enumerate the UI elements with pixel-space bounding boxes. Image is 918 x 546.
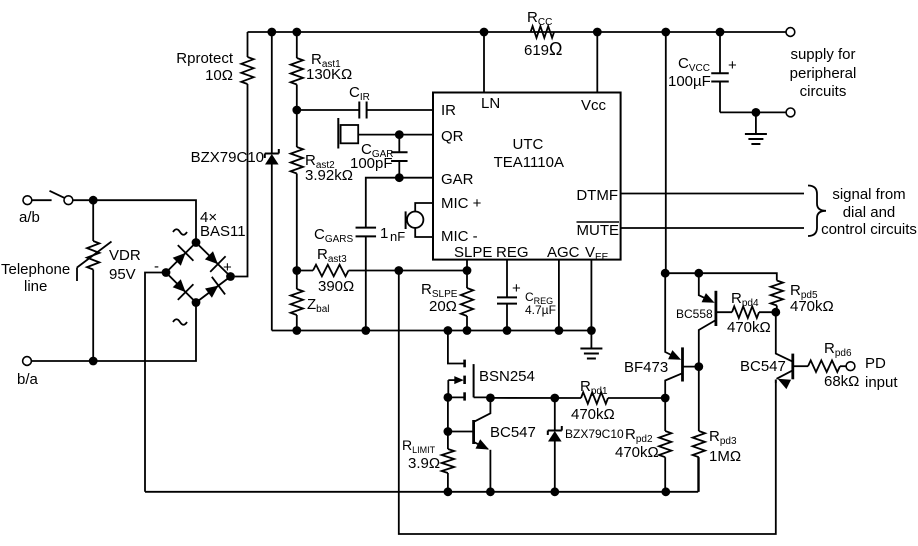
resistor Rpd3 1M: [698, 367, 700, 431]
node: SLPE feedback junction: [394, 266, 403, 275]
capacitor CGARS 1nF: [356, 227, 377, 229]
terminal PD input: [846, 362, 855, 371]
node: VDR top junction: [89, 196, 98, 205]
wire: SLPE row right: [349, 270, 468, 272]
node: CGARS bottom: [361, 326, 370, 335]
node: BF473 emitter top: [661, 269, 670, 278]
wire: IR line left: [297, 109, 360, 111]
node: bridge left vertex (-): [162, 268, 171, 277]
wire: REG pin down: [506, 260, 508, 298]
zener diode BZX79C10 (line): [265, 153, 279, 155]
svg-text:AGC: AGC: [547, 244, 580, 261]
svg-text:Vcc: Vcc: [581, 97, 607, 114]
svg-text:VDR: VDR: [109, 247, 141, 264]
svg-text:619Ω: 619Ω: [524, 39, 563, 59]
node: zener2 bottom: [550, 487, 559, 496]
transistor Q5 BC547 emitter: [777, 370, 793, 379]
wire: bridge plus up to Rprotect: [235, 84, 248, 277]
node: BC547 base junction: [444, 427, 453, 436]
microphone MIC symbol: [405, 211, 407, 229]
transistor Q4 BF473 collector: [665, 373, 682, 398]
transistor Q5 BC547 collector: [776, 312, 793, 362]
wire: MUTE line: [621, 227, 804, 229]
transistor Q3 BC558 base: [715, 291, 718, 326]
node: VEE bottom: [587, 326, 596, 335]
svg-text:nF: nF: [390, 229, 405, 244]
transistor Q2 BC547 emitter: [474, 442, 488, 449]
node: supply ground junction: [752, 108, 761, 117]
svg-text:-: -: [154, 258, 159, 275]
diode bridge 4x BAS11 frame: [166, 243, 231, 303]
wire: QR line: [358, 134, 433, 136]
svg-text:BF473: BF473: [624, 359, 668, 376]
wire: feedback SLPE to PD emitter: [399, 271, 776, 535]
node: supply branch junction: [661, 28, 670, 37]
diode D3 (left to bottom): [173, 279, 186, 292]
hook switch S1 blade: [32, 199, 52, 201]
svg-text:130KΩ: 130KΩ: [306, 66, 352, 83]
transistor Q5 BC547 base: [791, 354, 794, 380]
node: Rpd4 Rpd5 junction: [771, 308, 780, 317]
wire: IR line right: [367, 109, 433, 111]
svg-text:a/b: a/b: [19, 209, 40, 226]
resistor Rpd6 68k: [808, 360, 840, 372]
node: VDR bottom junction: [89, 357, 98, 366]
wire: source to base: [447, 397, 449, 431]
transistor Q1 BSN254 drain: [448, 331, 465, 364]
varistor VDR: [92, 200, 94, 241]
node: BSN254 drain junction: [444, 326, 453, 335]
svg-text:+: +: [728, 57, 737, 74]
node: Vcc top: [593, 28, 602, 37]
svg-text:control circuits: control circuits: [821, 221, 917, 238]
node: CREG bottom: [503, 326, 512, 335]
node: zener2 top junction: [550, 394, 559, 403]
svg-text:470kΩ: 470kΩ: [571, 406, 615, 423]
svg-text:input: input: [865, 374, 898, 391]
resistor RCC 619: [531, 26, 555, 38]
node: LN top: [480, 28, 489, 37]
svg-text:68kΩ: 68kΩ: [824, 373, 859, 390]
svg-text:BZX79C10: BZX79C10: [565, 427, 624, 441]
brace right: [808, 186, 826, 237]
wire: LN pin up: [483, 32, 485, 93]
node: GAR junction: [395, 173, 404, 182]
node: zener top: [267, 28, 276, 37]
diode D2 (top to plus): [205, 251, 218, 264]
svg-text:b/a: b/a: [17, 371, 39, 388]
wire: b/a to bridge bottom: [31, 307, 196, 362]
wire: MIC- line: [415, 228, 433, 237]
svg-text:100pF: 100pF: [350, 155, 393, 172]
diode D1 (left to top): [173, 253, 186, 266]
svg-text:PD: PD: [865, 355, 886, 372]
wire: top supply rail: [248, 31, 786, 33]
wire: zener branch upper: [271, 32, 273, 154]
node: Rast1 top: [292, 28, 301, 37]
wire: zener branch lower: [271, 165, 273, 331]
ac symbol top: [173, 229, 187, 235]
wire: Rpd3 bottom corner: [697, 457, 699, 492]
svg-text:SLPE: SLPE: [454, 244, 492, 261]
svg-text:BC558: BC558: [676, 307, 713, 321]
resistor Rpd4 470k: [716, 311, 732, 313]
svg-text:20Ω: 20Ω: [429, 298, 457, 315]
node: BC558 emitter top: [694, 269, 703, 278]
node: RLIMIT bottom: [444, 487, 453, 496]
svg-text:+: +: [223, 259, 232, 276]
wire: a/b to bridge top: [73, 200, 196, 238]
node: RSLPE bottom: [463, 326, 472, 335]
resistor Rast3 390: [313, 265, 349, 277]
wire: Vcc pin up: [596, 32, 598, 93]
wire: SLPE pin down: [466, 260, 468, 271]
svg-text:100µF: 100µF: [668, 73, 711, 90]
svg-text:95V: 95V: [109, 266, 136, 283]
wire: DTMF line: [621, 193, 804, 195]
svg-text:1: 1: [380, 225, 388, 242]
node: CVCC top: [716, 28, 725, 37]
node: Rpd2 bottom: [661, 487, 670, 496]
wire: AGC pin down: [558, 260, 560, 331]
resistor Rpd1 470k: [581, 392, 608, 404]
svg-text:UTC: UTC: [512, 136, 543, 153]
transistor Q2 BC547 collector: [474, 398, 491, 422]
transistor Q4 BF473 emitter: [665, 273, 678, 358]
svg-text:390Ω: 390Ω: [318, 278, 354, 295]
node: bridge right vertex (+): [226, 272, 235, 281]
transistor Q1 BSN254 gate: [473, 364, 475, 397]
svg-text:REG: REG: [496, 244, 529, 261]
svg-text:4.7µF: 4.7µF: [525, 303, 556, 317]
terminal a/b (line a): [23, 196, 32, 205]
transistor Q3 BC558 emitter: [699, 273, 712, 301]
svg-text:GAR: GAR: [441, 171, 474, 188]
zener diode BZX79C10 (PD): [554, 398, 556, 431]
resistor Rpd2 470k: [664, 398, 666, 431]
svg-text:LN: LN: [481, 95, 500, 112]
ground: VEE: [590, 331, 592, 349]
node: CGAR top junction: [395, 130, 404, 139]
wire: PD rail: [666, 273, 777, 280]
resistor Rast1 130K: [296, 32, 298, 58]
svg-text:470kΩ: 470kΩ: [727, 319, 771, 336]
node: SLPE row left junction: [292, 266, 301, 275]
ac symbol bottom: [173, 319, 187, 325]
node: Zbal bottom: [292, 326, 301, 335]
wire: VEE rail: [272, 330, 592, 332]
svg-text:+: +: [512, 280, 521, 297]
terminal b/a (line b): [23, 357, 32, 366]
op-amp U1 UTC TEA1110A box: [433, 93, 621, 260]
node: IR junction: [292, 106, 301, 115]
wire: gate node to Rpd1: [490, 397, 581, 399]
capacitor CREG 4.7uF: [497, 296, 517, 298]
node: BSN254 gate junction: [486, 394, 495, 403]
wire: bridge minus to bottom rail: [145, 273, 162, 492]
receiver QR symbol: [337, 118, 339, 149]
svg-text:3.9Ω: 3.9Ω: [408, 455, 440, 472]
wire: bottom rail: [145, 491, 698, 493]
node: BF473 base junction: [694, 362, 703, 371]
svg-text:BC547: BC547: [740, 358, 786, 375]
impedance Zbal: [296, 271, 298, 290]
node: bridge top vertex: [192, 238, 201, 247]
svg-text:470kΩ: 470kΩ: [790, 298, 834, 315]
resistor Rprotect 10ohm: [241, 57, 253, 84]
terminal supply -: [786, 108, 795, 117]
node: BSN254 source junction: [444, 393, 453, 402]
resistor Rpd5 470k: [771, 281, 783, 306]
wire: VEE pin down: [590, 260, 592, 331]
svg-text:peripheral: peripheral: [790, 65, 857, 82]
wire: Rpd1 to BF473 node: [608, 397, 665, 399]
transistor Q1 BSN254 source: [448, 396, 464, 398]
transistor Q4 BF473 base: [681, 347, 684, 381]
svg-text:3.92kΩ: 3.92kΩ: [305, 167, 353, 184]
transistor Q3 BC558 collector: [699, 320, 716, 367]
transistor Q1 BSN254 channel: [463, 360, 466, 368]
svg-text:MIC -: MIC -: [441, 228, 478, 245]
svg-text:DTMF: DTMF: [576, 187, 618, 204]
svg-text:TEA1110A: TEA1110A: [494, 154, 564, 171]
svg-text:IR: IR: [441, 102, 456, 119]
node: bridge bottom vertex: [192, 298, 201, 307]
capacitor CVCC 100uF: [719, 32, 721, 73]
svg-text:QR: QR: [441, 128, 464, 145]
resistor RSLPE 20: [466, 271, 468, 289]
svg-text:Telephone: Telephone: [1, 261, 70, 278]
wire: GAR line: [366, 178, 433, 228]
wire: CVCC bottom to terminal: [720, 111, 786, 113]
svg-text:BSN254: BSN254: [479, 368, 535, 385]
transistor Q1 BSN254 bulk arrow: [448, 379, 456, 381]
svg-text:dial and: dial and: [843, 204, 896, 221]
svg-text:BZX79C10: BZX79C10: [191, 149, 264, 166]
svg-text:circuits: circuits: [800, 83, 847, 100]
diode D4 (bottom to plus): [205, 286, 218, 298]
node: AGC bottom: [555, 326, 564, 335]
svg-text:470kΩ: 470kΩ: [615, 444, 659, 461]
svg-text:BAS11: BAS11: [200, 223, 246, 240]
wire: supply to PD rail: [665, 32, 667, 273]
svg-text:Rprotect: Rprotect: [176, 50, 234, 67]
resistor Rast2 3.92k: [296, 110, 298, 147]
svg-text:supply for: supply for: [790, 46, 855, 63]
node: BC547 emitter bottom: [486, 487, 495, 496]
resistor RLIMIT 3.9: [447, 432, 449, 450]
node: Rpd1 right junction: [661, 394, 670, 403]
capacitor CGAR 100pF: [398, 135, 400, 153]
transistor Q2 BC547 base: [448, 431, 474, 433]
svg-text:MUTE: MUTE: [577, 222, 620, 239]
wire: SLPE row left: [297, 270, 313, 272]
svg-text:1MΩ: 1MΩ: [709, 448, 741, 465]
svg-text:signal from: signal from: [832, 186, 905, 203]
svg-text:10Ω: 10Ω: [205, 67, 233, 84]
svg-text:MIC +: MIC +: [441, 195, 482, 212]
node: SLPE pin junction: [463, 266, 472, 275]
terminal supply +: [786, 28, 795, 37]
svg-text:BC547: BC547: [490, 424, 536, 441]
capacitor CIR: [358, 102, 360, 119]
svg-text:line: line: [24, 278, 47, 295]
ground: supply: [755, 112, 757, 134]
wire: MIC+ line: [415, 203, 433, 212]
